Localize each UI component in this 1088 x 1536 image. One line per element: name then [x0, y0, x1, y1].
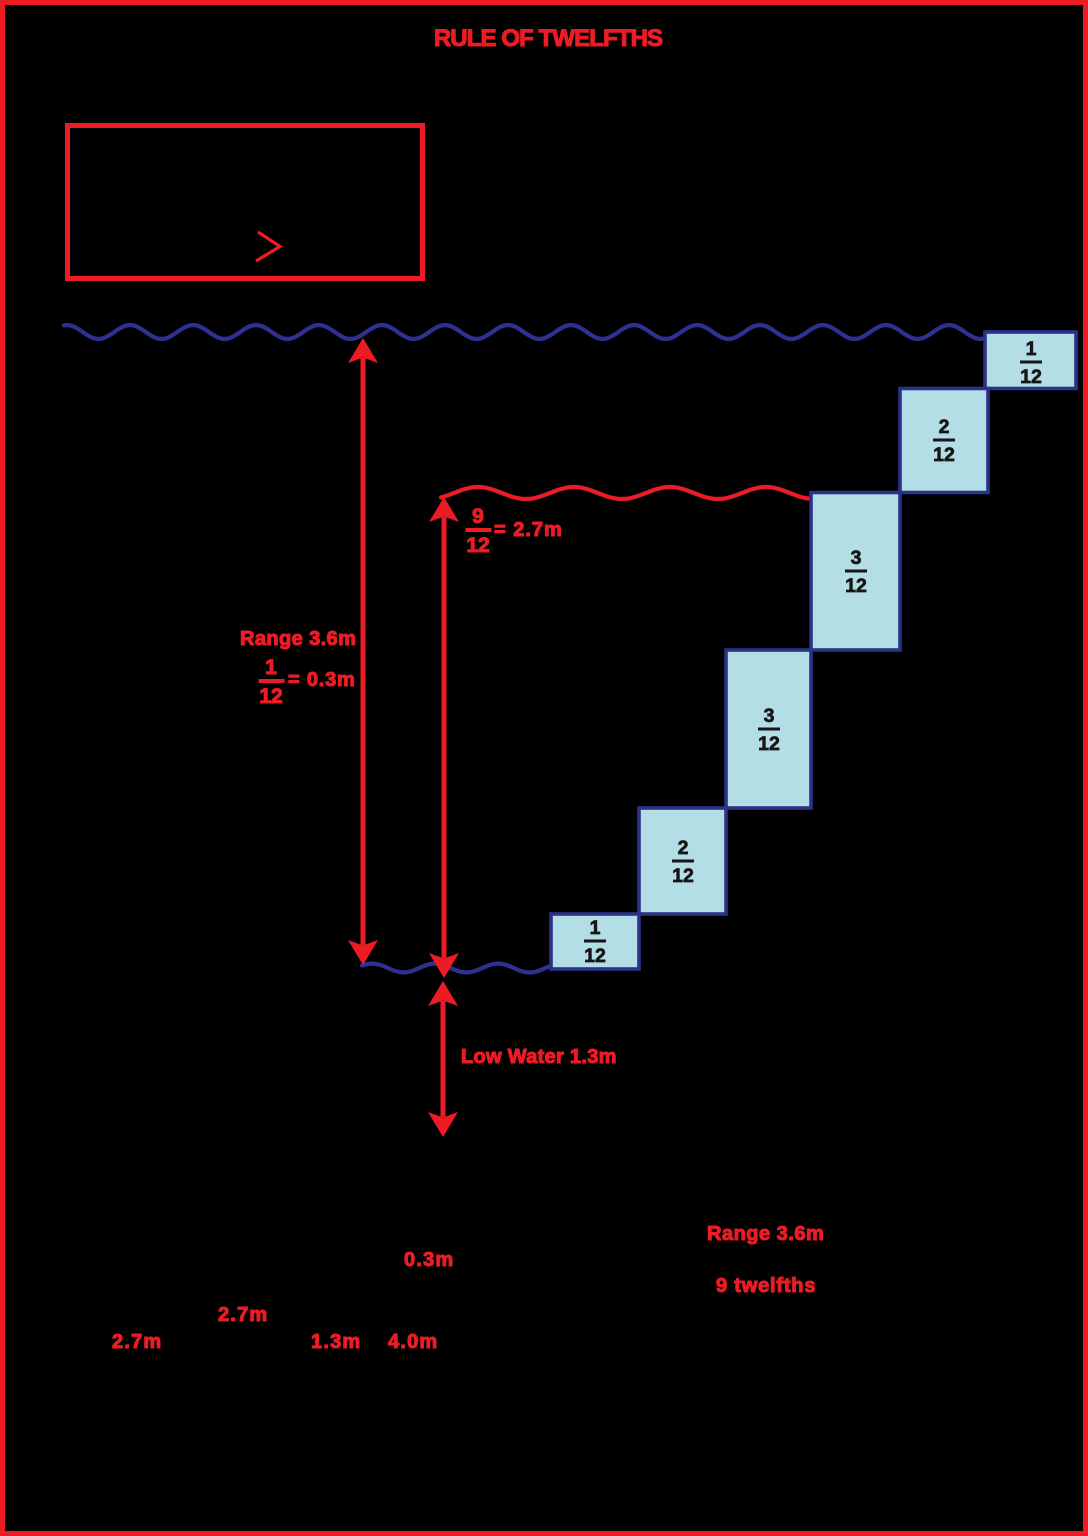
- svg-text:RULE OF TWELFTHS: RULE OF TWELFTHS: [434, 25, 663, 52]
- svg-text:= 2.7m: = 2.7m: [494, 519, 563, 541]
- low water depth arrow: [428, 981, 458, 1137]
- svg-text:Low Water 1.3m: Low Water 1.3m: [461, 1046, 617, 1068]
- label fraction 9/12 = 2.7m: [466, 505, 563, 557]
- svg-text:12: 12: [758, 733, 780, 755]
- svg-text:12: 12: [259, 685, 282, 708]
- step box 1/12 (first hour): [985, 332, 1076, 389]
- svg-text:0.3m: 0.3m: [404, 1249, 454, 1271]
- svg-text:12: 12: [466, 534, 489, 557]
- svg-text:2: 2: [939, 416, 950, 438]
- svg-text:= 0.3m: = 0.3m: [288, 669, 356, 691]
- step box 1/12 (sixth hour): [551, 914, 639, 969]
- svg-text:1.3m: 1.3m: [311, 1331, 361, 1353]
- high water info box (red rectangle): [68, 126, 423, 279]
- step box 3/12 (third hour): [811, 493, 900, 651]
- 9/12 level red wavy line: [441, 487, 810, 499]
- svg-text:3: 3: [851, 547, 862, 569]
- svg-text:12: 12: [845, 575, 867, 597]
- step box 3/12 (fourth hour): [726, 650, 811, 808]
- step box 2/12 (second hour): [900, 389, 988, 493]
- svg-text:Range 3.6m: Range 3.6m: [240, 628, 356, 650]
- svg-text:1: 1: [1026, 338, 1037, 360]
- greater-than mark inside info box: [256, 232, 280, 261]
- svg-text:12: 12: [672, 865, 694, 887]
- svg-text:1: 1: [265, 656, 277, 679]
- svg-text:12: 12: [584, 945, 606, 967]
- svg-text:2.7m: 2.7m: [218, 1304, 268, 1326]
- step box 2/12 (fifth hour): [639, 808, 726, 914]
- svg-text:1: 1: [590, 917, 601, 939]
- svg-text:9 twelfths: 9 twelfths: [716, 1275, 816, 1297]
- svg-text:12: 12: [933, 444, 955, 466]
- svg-text:Range 3.6m: Range 3.6m: [707, 1223, 824, 1245]
- range arrow (high water to low water): [348, 338, 378, 965]
- low water wavy line: [362, 964, 551, 973]
- high water wavy line: [64, 325, 985, 339]
- svg-text:3: 3: [764, 705, 775, 727]
- svg-text:4.0m: 4.0m: [388, 1331, 438, 1353]
- svg-text:12: 12: [1020, 366, 1042, 388]
- svg-text:9: 9: [472, 505, 484, 528]
- 9/12 arrow (9 twelfths span): [429, 497, 459, 978]
- svg-text:2.7m: 2.7m: [112, 1331, 162, 1353]
- label fraction 1/12 = 0.3m: [259, 656, 356, 708]
- svg-text:2: 2: [678, 837, 689, 859]
